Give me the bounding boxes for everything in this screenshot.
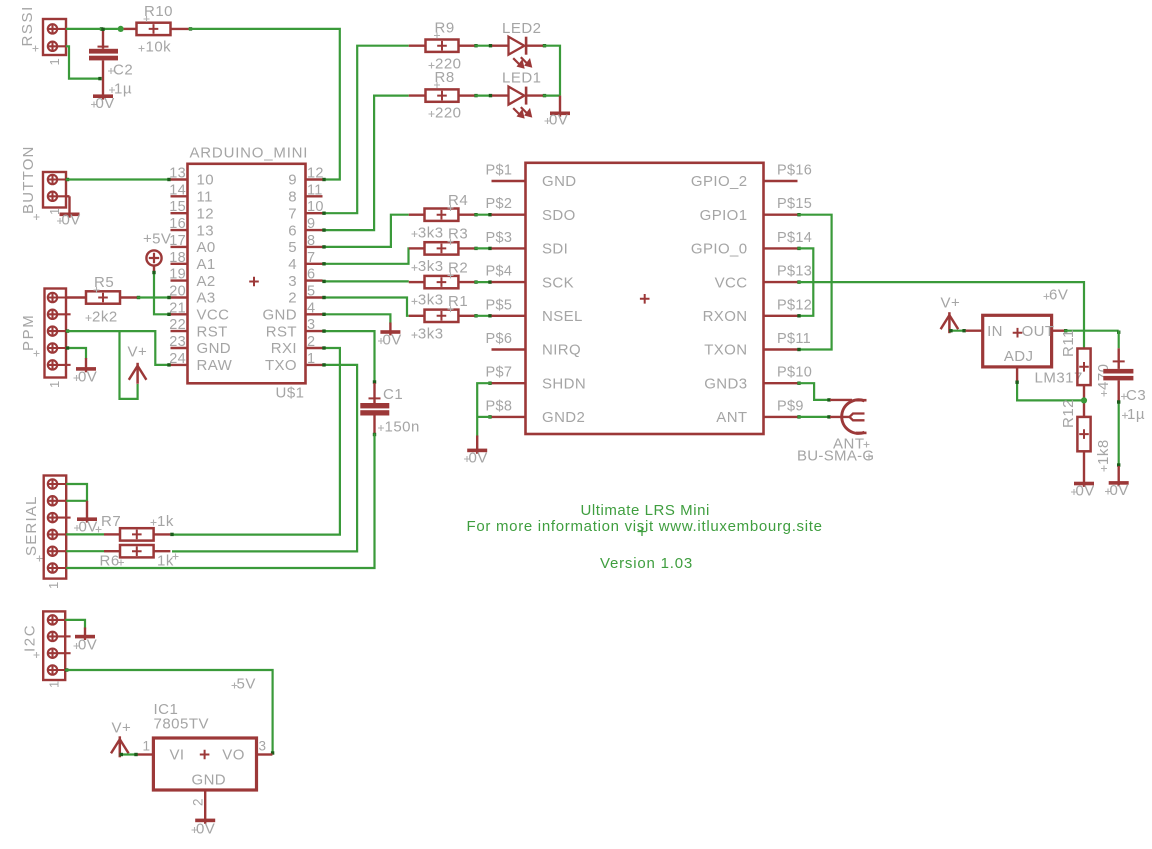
capacitor C3 1u xyxy=(1117,331,1120,334)
arduino left pin 22 (RST) xyxy=(171,330,188,332)
svg-text:5: 5 xyxy=(288,239,297,256)
label R9 value 220 xyxy=(429,63,435,69)
wire R9 to LED2 xyxy=(474,44,477,47)
wire RSSI pin2 to C2 bottom xyxy=(66,46,101,78)
svg-text:RST: RST xyxy=(266,323,297,340)
svg-text:NIRQ: NIRQ xyxy=(542,342,581,359)
rf chip right pin P$12 (RXON) xyxy=(764,315,798,317)
svg-text:1: 1 xyxy=(47,381,62,388)
arduino left pin 24 (RAW) xyxy=(171,364,188,366)
label C2 value 1u xyxy=(109,87,115,93)
svg-text:19: 19 xyxy=(169,267,186,283)
svg-text:P$16: P$16 xyxy=(777,163,812,179)
svg-text:P$2: P$2 xyxy=(486,196,513,212)
svg-text:GND: GND xyxy=(262,307,297,324)
connector BUTTON (2-pin) xyxy=(43,172,66,208)
label R3 value 3k3 xyxy=(412,265,418,271)
wire LED2 cathode to ground rail xyxy=(543,44,546,47)
svg-text:GND: GND xyxy=(197,340,232,357)
svg-text:A0: A0 xyxy=(197,239,216,256)
wire R2 to chip xyxy=(474,280,477,283)
svg-text:23: 23 xyxy=(169,334,186,350)
svg-text:V+: V+ xyxy=(941,295,961,312)
resistor R1 xyxy=(409,315,425,317)
connector SERIAL (6-pin) xyxy=(44,476,66,579)
resistor R5 xyxy=(66,296,86,298)
ground 0V at SHDN/GND2 xyxy=(488,382,491,385)
svg-text:1: 1 xyxy=(143,739,151,754)
svg-text:0V: 0V xyxy=(78,369,97,386)
svg-text:A2: A2 xyxy=(197,273,216,290)
svg-text:VCC: VCC xyxy=(197,307,230,324)
voltage regulator IC1 7805TV box xyxy=(153,738,256,790)
svg-text:VCC: VCC xyxy=(715,274,748,291)
svg-text:BUTTON: BUTTON xyxy=(20,145,37,214)
ground 0V at R12 xyxy=(1083,451,1085,487)
svg-text:C1: C1 xyxy=(383,386,403,403)
wire ANT pin to antenna xyxy=(797,415,800,418)
svg-text:V+: V+ xyxy=(128,344,148,361)
arduino left pin 21 (VCC) xyxy=(171,313,188,315)
svg-text:15: 15 xyxy=(169,199,186,215)
svg-text:A1: A1 xyxy=(197,256,216,273)
svg-text:2k2: 2k2 xyxy=(92,309,118,326)
wire arduino pin1 TXO down to R6 xyxy=(172,365,357,552)
svg-text:RST: RST xyxy=(197,323,228,340)
arduino left pin 19 (A2) xyxy=(171,279,188,281)
arduino left pin 15 (12) xyxy=(171,212,188,214)
ppm pin5 stub xyxy=(66,364,71,366)
rf chip left pin P$7 (SHDN) xyxy=(492,382,526,384)
rf chip left pin P$2 (SDO) xyxy=(492,213,526,215)
svg-text:22: 22 xyxy=(169,317,186,333)
svg-text:6: 6 xyxy=(288,222,297,239)
svg-text:NSEL: NSEL xyxy=(542,308,583,325)
wire R8 to LED1 xyxy=(474,94,477,97)
svg-text:21: 21 xyxy=(169,300,186,316)
arduino right pin 7 (4) xyxy=(306,263,323,265)
wire GND3 to antenna shield xyxy=(797,382,800,385)
svg-text:1: 1 xyxy=(47,58,62,65)
svg-text:220: 220 xyxy=(435,105,462,122)
svg-text:P$8: P$8 xyxy=(486,398,513,414)
wire R3 to chip xyxy=(474,247,477,250)
svg-text:3k3: 3k3 xyxy=(418,258,444,275)
label R7 value 1k xyxy=(151,520,157,526)
ground 0V at LEDs xyxy=(559,96,561,117)
svg-text:Version 1.03: Version 1.03 xyxy=(600,555,693,572)
wire LED1 cathode to ground xyxy=(543,94,546,97)
rf chip right pin P$15 (GPIO1) xyxy=(764,213,798,215)
wire RSSI pin1 to R10 node xyxy=(100,27,103,30)
wire V+ to IC1 VI xyxy=(120,753,138,755)
svg-text:ADJ: ADJ xyxy=(1004,348,1034,365)
arduino left pin 13 (10) xyxy=(171,178,188,180)
label C3 name xyxy=(1121,394,1127,400)
svg-text:GPIO1: GPIO1 xyxy=(700,207,748,224)
label C2 name xyxy=(108,68,114,74)
supply +5V symbol xyxy=(146,250,161,265)
svg-text:3k3: 3k3 xyxy=(418,224,444,241)
svg-text:GND3: GND3 xyxy=(704,375,747,392)
lm317 OUT pin wire to C3 xyxy=(1052,330,1065,332)
svg-text:12: 12 xyxy=(197,205,215,222)
origin cross RF module xyxy=(640,294,650,304)
arduino left pin 17 (A0) xyxy=(171,246,188,248)
rf chip left pin P$1 (GND) xyxy=(492,180,526,182)
svg-text:SDO: SDO xyxy=(542,207,576,224)
svg-text:8: 8 xyxy=(288,189,297,206)
ic1 pin 2 GND xyxy=(204,790,206,810)
ground 0V at C3 xyxy=(1117,466,1119,486)
wire VCC to 6V rail xyxy=(797,280,800,283)
arduino right pin 2 (RXI) xyxy=(306,347,323,349)
connector PPM (5-pin) xyxy=(45,289,67,378)
label 6V xyxy=(1044,294,1050,300)
wire i2c pin4 to 5V / IC1 VO xyxy=(65,668,68,671)
svg-text:0V: 0V xyxy=(79,519,98,536)
ic1 pin 1 VI xyxy=(138,753,154,755)
svg-text:PPM: PPM xyxy=(20,314,37,351)
svg-text:P$9: P$9 xyxy=(777,398,804,414)
svg-text:TXO: TXO xyxy=(265,357,297,374)
svg-text:14: 14 xyxy=(169,182,186,198)
svg-text:7: 7 xyxy=(288,205,297,222)
svg-text:2: 2 xyxy=(307,334,315,350)
svg-text:4: 4 xyxy=(288,256,297,273)
arduino right pin 4 (GND) xyxy=(306,313,323,315)
connector RSSI (2-pin) xyxy=(43,19,66,55)
ic1 pin 3 VO xyxy=(257,753,273,755)
label R10 value 10k xyxy=(139,46,145,52)
wire arduino pin2 RXI down to R7 xyxy=(172,348,340,535)
wire PPM pin3 to arduino pin24 RAW and V+ xyxy=(66,329,69,332)
rf chip right pin P$10 (GND3) xyxy=(764,382,798,384)
svg-text:5: 5 xyxy=(307,284,315,300)
svg-text:9: 9 xyxy=(307,216,315,232)
svg-text:1µ: 1µ xyxy=(114,81,132,98)
svg-text:BU-SMA-G: BU-SMA-G xyxy=(797,448,874,465)
rf chip left pin P$8 (GND2) xyxy=(492,416,526,418)
svg-text:P$11: P$11 xyxy=(777,331,811,347)
arduino right pin 8 (5) xyxy=(306,246,323,248)
supply V+ symbol at PPM xyxy=(136,363,139,384)
resistor R8 xyxy=(409,94,426,96)
svg-text:1: 1 xyxy=(46,582,61,589)
svg-text:2: 2 xyxy=(288,290,297,307)
wire arduino pin6 (3) to R2 xyxy=(323,280,409,282)
wire V+ to LM317 IN xyxy=(949,330,965,332)
arduino right pin 3 (RST) xyxy=(306,330,323,332)
wire arduino pin5 (2) to R1 xyxy=(323,298,409,316)
svg-text:11: 11 xyxy=(307,182,323,198)
svg-text:P$10: P$10 xyxy=(777,365,812,381)
svg-text:RSSI: RSSI xyxy=(19,5,36,46)
ppm pin2 stub xyxy=(66,313,71,315)
resistor R11 470 xyxy=(1077,349,1090,386)
svg-text:C3: C3 xyxy=(1126,387,1146,404)
supply V+ at LM317 xyxy=(948,312,951,333)
svg-text:VI: VI xyxy=(170,747,185,764)
label R8 value 220 xyxy=(429,111,435,117)
svg-text:VO: VO xyxy=(222,747,244,764)
voltage regulator LM317 box xyxy=(966,330,983,332)
svg-text:GPIO_2: GPIO_2 xyxy=(691,173,748,190)
wire GPIO1 to TXON xyxy=(797,213,800,216)
svg-text:SHDN: SHDN xyxy=(542,375,586,392)
svg-text:7: 7 xyxy=(307,250,315,266)
svg-text:IN: IN xyxy=(987,323,1003,340)
wire R10 to arduino pin12 xyxy=(189,27,192,30)
wire arduino pin7 (4) to R3 xyxy=(323,248,409,263)
svg-text:ARDUINO_MINI: ARDUINO_MINI xyxy=(190,145,309,162)
svg-text:10k: 10k xyxy=(146,39,172,56)
ground 0V at i2c pin1 xyxy=(65,620,85,629)
svg-text:+5V: +5V xyxy=(143,231,171,248)
svg-text:LED1: LED1 xyxy=(502,70,542,87)
svg-text:P$15: P$15 xyxy=(777,196,812,212)
wire R5 to arduino pin20 A3 xyxy=(137,296,140,299)
svg-text:20: 20 xyxy=(169,284,186,300)
rf chip left pin P$3 (SDI) xyxy=(492,247,526,249)
arduino right pin 10 (7) xyxy=(306,212,323,214)
svg-text:SERIAL: SERIAL xyxy=(23,495,40,556)
svg-text:P$1: P$1 xyxy=(486,163,513,179)
resistor R4 xyxy=(409,213,425,215)
wire V+ branch xyxy=(120,331,138,399)
svg-text:P$5: P$5 xyxy=(486,297,513,313)
origin cross LM317 xyxy=(1013,328,1023,338)
resistor R10 xyxy=(124,28,137,30)
svg-text:150n: 150n xyxy=(385,419,420,436)
svg-text:7805TV: 7805TV xyxy=(154,716,210,733)
capacitor C1 150n xyxy=(373,383,375,403)
ground 0V at IC1 GND xyxy=(204,810,206,824)
supply V+ at IC1 xyxy=(119,736,122,757)
svg-text:2: 2 xyxy=(191,798,206,806)
arduino left pin 16 (13) xyxy=(171,229,188,231)
ground 0V at serial pins 1-2 xyxy=(66,484,87,501)
svg-text:I2C: I2C xyxy=(22,624,39,652)
svg-text:P$7: P$7 xyxy=(486,365,513,381)
svg-text:P$4: P$4 xyxy=(486,264,513,280)
arduino left pin 14 (11) xyxy=(171,195,188,197)
rf chip left pin P$6 (NIRQ) xyxy=(492,348,526,350)
svg-text:For more information visit www: For more information visit www.itluxembo… xyxy=(467,518,823,535)
svg-text:6V: 6V xyxy=(1049,287,1068,304)
rf chip right pin P$11 (TXON) xyxy=(764,348,798,350)
rf chip right pin P$9 (ANT) xyxy=(764,416,798,418)
svg-text:ANT: ANT xyxy=(716,409,747,426)
i2c pin2 stub xyxy=(65,635,70,637)
svg-text:3: 3 xyxy=(288,273,297,290)
resistor R3 xyxy=(409,247,425,249)
svg-text:16: 16 xyxy=(169,216,186,232)
svg-text:R10: R10 xyxy=(144,3,173,20)
svg-text:0V: 0V xyxy=(96,95,115,112)
svg-text:0V: 0V xyxy=(62,212,81,229)
arduino left pin 23 (GND) xyxy=(171,347,188,349)
rf chip right pin P$14 (GPIO_0) xyxy=(764,247,798,249)
svg-text:10: 10 xyxy=(307,199,324,215)
svg-text:GPIO_0: GPIO_0 xyxy=(691,241,748,258)
wire BUTTON pin1 to arduino pin13 xyxy=(66,178,69,181)
resistor R9 xyxy=(409,45,426,47)
wire C1 to serial pin6 xyxy=(373,433,376,436)
i2c pin3 stub xyxy=(65,652,70,654)
connector ANT BU-SMA-G xyxy=(830,399,852,401)
arduino right pin 9 (6) xyxy=(306,229,323,231)
svg-text:TXON: TXON xyxy=(704,342,747,359)
resistor R7 xyxy=(66,533,104,535)
svg-text:0V: 0V xyxy=(1076,483,1095,500)
svg-text:0V: 0V xyxy=(1110,482,1129,499)
arduino right pin 5 (2) xyxy=(306,296,323,298)
ic RF module box xyxy=(526,163,764,434)
svg-text:24: 24 xyxy=(169,351,186,367)
svg-text:P$3: P$3 xyxy=(486,230,513,246)
svg-text:V+: V+ xyxy=(112,720,132,737)
svg-text:R12: R12 xyxy=(1060,399,1077,428)
svg-text:17: 17 xyxy=(169,233,186,249)
label C3 value 1u xyxy=(1122,413,1128,419)
capacitor C2 (polarized 1u) xyxy=(102,29,104,49)
ic U$1 ARDUINO_MINI box xyxy=(188,164,306,383)
svg-text:P$12: P$12 xyxy=(777,297,812,313)
label R4 value 3k3 xyxy=(412,231,418,237)
led LED2 xyxy=(492,45,509,47)
svg-text:LM317: LM317 xyxy=(1035,370,1083,387)
svg-text:4: 4 xyxy=(307,300,315,316)
svg-text:R7: R7 xyxy=(101,513,121,530)
svg-text:12: 12 xyxy=(307,166,324,182)
ground 0V at BUTTON pin2 xyxy=(66,195,70,197)
lm317 ADJ pin wire to divider xyxy=(1016,367,1018,381)
wire serial pin6 to C1 xyxy=(66,567,172,569)
svg-text:SDI: SDI xyxy=(542,241,568,258)
rf chip left pin P$5 (NSEL) xyxy=(492,315,526,317)
label 5V xyxy=(232,683,238,689)
svg-text:GND: GND xyxy=(542,173,577,190)
node junction dot ADJ/R11/R12 xyxy=(1081,397,1087,403)
svg-text:3k3: 3k3 xyxy=(418,325,444,342)
rf chip right pin P$13 (VCC) xyxy=(764,281,798,283)
svg-text:RAW: RAW xyxy=(197,357,233,374)
svg-text:U$1: U$1 xyxy=(276,385,305,402)
node junction dot RSSI/C2/R10 xyxy=(118,26,124,32)
svg-text:0V: 0V xyxy=(78,637,97,654)
svg-text:13: 13 xyxy=(169,166,186,182)
arduino left pin 18 (A1) xyxy=(171,263,188,265)
svg-text:GND2: GND2 xyxy=(542,409,585,426)
svg-text:1k8: 1k8 xyxy=(1095,439,1112,465)
arduino right pin 11 (8) xyxy=(306,195,323,197)
label R5 value 2k2 xyxy=(86,315,92,321)
arduino right pin 1 (TXO) xyxy=(306,364,323,366)
origin cross U$1 xyxy=(249,277,259,287)
svg-text:3: 3 xyxy=(259,739,267,754)
svg-text:P$14: P$14 xyxy=(777,230,812,246)
svg-text:1µ: 1µ xyxy=(1127,406,1145,423)
svg-text:RXI: RXI xyxy=(271,340,297,357)
svg-text:SCK: SCK xyxy=(542,274,574,291)
serial pin3 stub xyxy=(66,517,70,519)
wire arduino pin9 (6) up to R8 xyxy=(323,96,409,231)
wire GPIO_0 to RXON xyxy=(797,247,800,250)
rf chip left pin P$4 (SCK) xyxy=(492,281,526,283)
ground 0V at PPM pin4 xyxy=(66,348,86,359)
ground 0V at arduino pin4 GND xyxy=(323,314,391,323)
svg-text:0V: 0V xyxy=(196,821,215,838)
connector I2C (4-pin) xyxy=(43,611,65,680)
svg-text:OUT: OUT xyxy=(1022,323,1055,340)
svg-text:R11: R11 xyxy=(1060,329,1077,357)
svg-text:9: 9 xyxy=(288,172,297,189)
svg-text:1: 1 xyxy=(47,681,62,688)
svg-text:LED2: LED2 xyxy=(502,20,542,37)
wire arduino pin3 RST down to C1 xyxy=(323,331,375,383)
svg-text:P$13: P$13 xyxy=(777,264,812,280)
svg-text:0V: 0V xyxy=(549,112,568,129)
wire arduino pin8 (5) to R4 xyxy=(323,215,409,247)
origin cross info text xyxy=(638,527,647,536)
wire R1 to chip xyxy=(474,314,477,317)
wire +5V to arduino pin21 VCC xyxy=(154,272,171,315)
svg-text:8: 8 xyxy=(307,233,315,249)
svg-text:18: 18 xyxy=(169,250,186,266)
arduino left pin 20 (A3) xyxy=(171,296,188,298)
wire R7 to arduino RXI rail xyxy=(170,533,173,536)
resistor R2 xyxy=(409,281,425,283)
svg-text:GND: GND xyxy=(192,772,227,789)
resistor R12 1k8 xyxy=(1077,417,1090,451)
svg-text:6: 6 xyxy=(307,267,315,283)
label C1 value 150n xyxy=(378,425,384,431)
rf chip right pin P$16 (GPIO_2) xyxy=(764,180,798,182)
svg-text:A3: A3 xyxy=(197,290,216,307)
label R2 value 3k3 xyxy=(412,298,418,304)
svg-text:P$6: P$6 xyxy=(486,331,513,347)
wire arduino pin10 (7) up to R9 xyxy=(323,46,409,214)
svg-text:0V: 0V xyxy=(383,332,402,349)
svg-text:Ultimate LRS Mini: Ultimate LRS Mini xyxy=(581,502,710,519)
led LED1 xyxy=(492,94,509,96)
wire GND2 to ground rail xyxy=(488,415,491,418)
svg-text:RXON: RXON xyxy=(703,308,748,325)
ground 0V at C2 xyxy=(102,60,104,99)
svg-text:0V: 0V xyxy=(469,450,488,467)
svg-text:1k: 1k xyxy=(157,513,174,530)
resistor R6 xyxy=(66,550,104,552)
svg-text:1: 1 xyxy=(307,351,315,367)
origin cross IC1 xyxy=(200,750,210,760)
svg-text:3k3: 3k3 xyxy=(418,292,444,309)
svg-text:C2: C2 xyxy=(113,62,133,79)
svg-text:5V: 5V xyxy=(237,676,256,693)
svg-text:11: 11 xyxy=(197,189,213,206)
wire R4 to chip xyxy=(474,213,477,216)
svg-text:10: 10 xyxy=(197,172,215,189)
label R1 value 3k3 xyxy=(412,332,418,338)
svg-text:13: 13 xyxy=(197,222,215,239)
arduino right pin 6 (3) xyxy=(306,279,323,281)
arduino right pin 12 (9) xyxy=(306,178,323,180)
svg-text:3: 3 xyxy=(307,317,315,333)
